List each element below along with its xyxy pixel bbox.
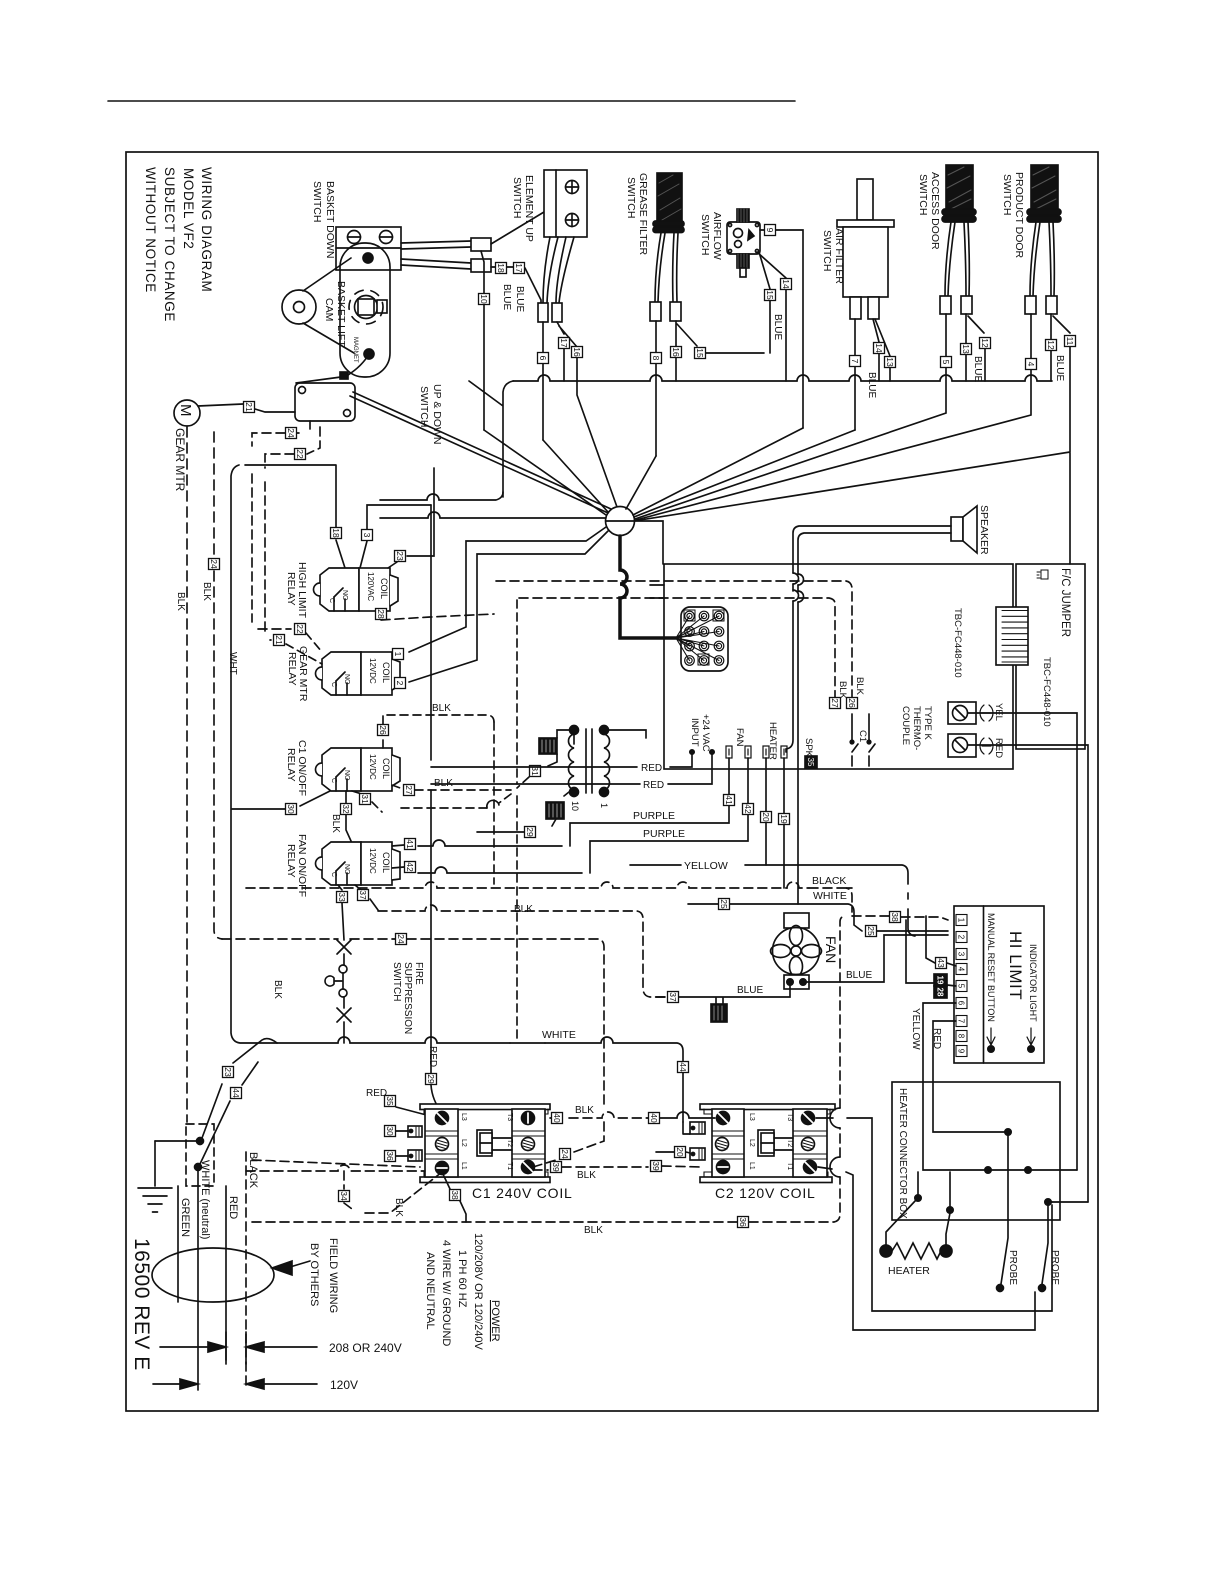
c1 on/off relay — [285, 740, 400, 796]
wires 14 13 — [873, 319, 890, 381]
svg-text:BLK: BLK — [575, 1105, 594, 1116]
fan assembly — [771, 913, 840, 989]
svg-text:L1: L1 — [748, 1162, 755, 1170]
probe wire 2 — [1042, 1202, 1048, 1284]
svg-text:ACCESS DOOR: ACCESS DOOR — [929, 172, 941, 250]
wire to element up switch — [491, 212, 544, 244]
tag 16 — [572, 347, 583, 358]
svg-text:13: 13 — [961, 344, 971, 354]
svg-text:20: 20 — [761, 812, 771, 822]
svg-text:C: C — [330, 872, 337, 877]
product door switch — [1001, 165, 1061, 259]
wire 14 — [757, 252, 786, 381]
svg-text:6: 6 — [957, 1001, 966, 1006]
wire 41 — [392, 845, 404, 846]
tag 26 — [378, 725, 389, 736]
svg-text:BLK: BLK — [393, 1198, 404, 1217]
tag 27 — [404, 785, 415, 796]
tag 42 — [743, 804, 754, 815]
svg-text:HEATER CONNECTOR BOX: HEATER CONNECTOR BOX — [897, 1088, 908, 1219]
svg-text:C1 240V COIL: C1 240V COIL — [472, 1185, 573, 1201]
svg-text:RELAY: RELAY — [285, 572, 297, 606]
tag 31 — [360, 794, 371, 805]
svg-text:11: 11 — [1065, 337, 1075, 346]
element up switch — [511, 170, 587, 242]
svg-text:SWITCH: SWITCH — [917, 174, 929, 215]
dashed 34 net — [246, 1165, 442, 1213]
double wire hub to magnet switch — [350, 392, 611, 513]
svg-text:L3: L3 — [748, 1113, 755, 1121]
svg-text:7: 7 — [850, 359, 860, 364]
tag 24 — [560, 1149, 571, 1160]
tag 31 — [530, 766, 541, 777]
tag 24 — [396, 934, 407, 945]
tag 14 — [874, 343, 885, 354]
radial wires to hub — [484, 428, 855, 517]
svg-text:16500 REV E: 16500 REV E — [130, 1238, 153, 1371]
black tags 19 28 — [934, 974, 947, 986]
svg-text:T1: T1 — [786, 1162, 793, 1170]
green wire — [177, 1186, 179, 1302]
svg-text:BLUE: BLUE — [501, 284, 512, 310]
svg-text:7: 7 — [957, 1019, 966, 1024]
svg-text:10: 10 — [570, 801, 580, 811]
bus left bend — [469, 381, 513, 497]
dashed wire 24 net — [222, 939, 604, 1108]
svg-text:20: 20 — [675, 1147, 685, 1157]
SEC-CORNER — [138, 1039, 501, 1392]
svg-text:BLUE: BLUE — [1054, 355, 1065, 381]
butt connector — [538, 303, 548, 322]
airflow switch — [699, 209, 760, 277]
basket down switch — [311, 181, 401, 270]
svg-text:FAN: FAN — [823, 936, 839, 963]
svg-text:INDICATOR LIGHT: INDICATOR LIGHT — [1028, 944, 1038, 1022]
wire 44 into connector — [683, 1122, 690, 1134]
tag 44 — [231, 1088, 242, 1099]
node dot — [197, 1138, 204, 1145]
wire 42 — [392, 867, 404, 868]
wire j-links — [988, 1170, 1088, 1202]
svg-text:RELAY: RELAY — [285, 748, 297, 782]
svg-text:TBC-FC448-010: TBC-FC448-010 — [952, 608, 963, 678]
svg-text:26: 26 — [847, 698, 857, 708]
dashed wire 26 — [383, 715, 494, 748]
butt connector — [670, 302, 681, 321]
svg-text:2: 2 — [957, 935, 966, 940]
black dashed wire — [245, 1152, 247, 1386]
svg-text:12VDC: 12VDC — [368, 658, 377, 684]
tag 22 — [295, 449, 306, 460]
svg-text:18: 18 — [331, 528, 341, 538]
svg-text:29: 29 — [426, 1074, 436, 1084]
svg-text:17: 17 — [559, 338, 569, 348]
title: WIRING DIAGRAM MODEL VF2 SUBJECT TO CHANGE WITHOUT NOTICE — [143, 167, 214, 322]
grease filter switch — [625, 173, 684, 255]
border frame — [126, 152, 1098, 1411]
hop arcs on dashed vertical — [830, 1108, 840, 1177]
yellow wire hl6 — [923, 1003, 988, 1170]
fire suppression switch — [325, 940, 424, 1043]
wire 39 dashed — [533, 1167, 648, 1170]
svg-text:24: 24 — [286, 428, 296, 438]
tag 21 — [274, 635, 285, 646]
tag 18 — [496, 263, 507, 274]
svg-text:BLK: BLK — [175, 592, 186, 611]
basket lift cam — [323, 243, 390, 377]
high limit relay — [285, 562, 398, 619]
gear mtr relay — [286, 646, 400, 702]
svg-text:RED: RED — [427, 1046, 438, 1067]
svg-text:COIL: COIL — [379, 578, 389, 599]
tag 23 — [395, 551, 406, 562]
svg-text:14: 14 — [781, 279, 791, 289]
svg-text:BLUE: BLUE — [846, 970, 872, 981]
dashed wire tag 22 — [265, 427, 320, 468]
dashed wire 28 — [378, 611, 494, 620]
+24 vac input — [689, 714, 714, 754]
svg-text:BLUE: BLUE — [866, 372, 877, 398]
wire 20 — [656, 1152, 690, 1153]
svg-text:COUPLE: COUPLE — [900, 706, 911, 745]
hi limit box — [954, 906, 1044, 1063]
grease filter wires — [655, 233, 678, 302]
svg-text:120V: 120V — [330, 1378, 358, 1392]
svg-text:6: 6 — [538, 356, 548, 361]
svg-text:15: 15 — [765, 290, 775, 300]
svg-text:YELLOW: YELLOW — [910, 1008, 921, 1050]
butt connector — [650, 302, 661, 321]
svg-text:44: 44 — [678, 1062, 688, 1072]
dashed pair to 26 27 — [496, 581, 852, 697]
svg-text:AND NEUTRAL: AND NEUTRAL — [424, 1252, 436, 1330]
svg-text:C: C — [330, 682, 337, 687]
SEC-RIGHT — [880, 713, 1088, 1292]
dashed wire vertical — [493, 722, 495, 884]
svg-text:NO: NO — [343, 864, 350, 875]
svg-text:MANUAL RESET BUTTON: MANUAL RESET BUTTON — [986, 913, 996, 1022]
fuse connector — [539, 738, 557, 754]
access door switch — [917, 165, 976, 250]
svg-text:40: 40 — [552, 1113, 562, 1123]
svg-text:36: 36 — [385, 1151, 395, 1161]
tag 23 — [223, 1067, 234, 1078]
wire M to 21 — [198, 404, 243, 406]
black connector — [711, 1004, 727, 1022]
svg-text:CAM: CAM — [323, 298, 335, 321]
wire 33 — [338, 885, 344, 940]
svg-text:BASKET LIFT: BASKET LIFT — [335, 281, 347, 347]
wire 23 — [388, 468, 434, 568]
wire 39 stub — [662, 1166, 700, 1167]
svg-text:2: 2 — [395, 681, 405, 686]
tag 15 — [765, 290, 776, 301]
svg-text:27: 27 — [404, 785, 414, 795]
tag 26 — [847, 698, 858, 709]
svg-text:C1: C1 — [857, 730, 868, 742]
hub node — [606, 507, 635, 536]
wire 24 dashed diag — [533, 1121, 604, 1167]
dashed vertical 22 — [252, 474, 291, 629]
svg-text:4 WIRE W/ GROUND: 4 WIRE W/ GROUND — [440, 1240, 452, 1346]
tag 17 — [514, 263, 525, 274]
svg-text:23: 23 — [395, 551, 405, 561]
tag 43 — [936, 958, 947, 969]
svg-text:C2 120V COIL: C2 120V COIL — [715, 1185, 816, 1201]
fuse connector — [546, 802, 564, 819]
tag 38 — [890, 912, 901, 923]
dashed wire 37 net — [378, 905, 666, 997]
wires 12 11 — [634, 314, 1070, 564]
svg-text:33: 33 — [337, 892, 347, 902]
tag 39 — [551, 1162, 562, 1173]
svg-text:INPUT: INPUT — [689, 718, 700, 747]
wire 4 drop — [636, 314, 1031, 520]
tag 19 — [779, 814, 790, 825]
white wire upper — [688, 904, 948, 931]
svg-text:5: 5 — [957, 984, 966, 989]
contactor C1 — [420, 1104, 573, 1201]
black dashed bus — [246, 882, 948, 920]
product door wires — [1030, 222, 1054, 296]
heater connector box — [892, 1082, 1060, 1220]
tag 3 — [362, 530, 373, 541]
dashed tags 22 21 gear relay — [286, 633, 322, 664]
svg-text:24: 24 — [560, 1149, 570, 1159]
svg-text:42: 42 — [405, 862, 415, 872]
svg-text:GEAR MTR: GEAR MTR — [173, 428, 187, 492]
svg-text:BLK: BLK — [837, 681, 848, 700]
wires transformer — [548, 730, 646, 826]
svg-text:15: 15 — [695, 348, 705, 358]
svg-text:FAN: FAN — [734, 728, 745, 747]
svg-text:19: 19 — [936, 976, 945, 985]
wire net18 horizontal — [245, 465, 345, 568]
tag 42 — [405, 862, 416, 873]
svg-text:42: 42 — [743, 804, 753, 814]
tag 33 — [337, 892, 348, 903]
svg-text:BLUE: BLUE — [514, 286, 525, 312]
pin stubs — [726, 746, 787, 758]
svg-text:39: 39 — [651, 1161, 661, 1171]
svg-text:24: 24 — [209, 559, 219, 569]
svg-text:13: 13 — [885, 357, 895, 367]
butt connector — [1025, 296, 1036, 314]
thick wire from hub to connector — [620, 536, 676, 638]
svg-text:L3: L3 — [460, 1113, 467, 1121]
svg-text:RED: RED — [641, 763, 662, 774]
svg-text:PURPLE: PURPLE — [643, 828, 685, 840]
svg-text:22: 22 — [295, 624, 305, 634]
control board box — [664, 564, 1013, 769]
wire 30 — [232, 791, 330, 809]
svg-text:28: 28 — [376, 609, 386, 619]
field wiring ellipse — [152, 1248, 274, 1302]
svg-text:C: C — [330, 778, 337, 783]
wire 40 into L3 — [648, 1112, 715, 1118]
svg-text:BLK: BLK — [432, 703, 451, 714]
svg-text:BLUE: BLUE — [737, 985, 763, 996]
svg-text:BLK: BLK — [577, 1170, 596, 1181]
svg-text:T2: T2 — [786, 1139, 793, 1147]
svg-text:PRODUCT DOOR: PRODUCT DOOR — [1013, 172, 1025, 259]
wire stubs into box — [650, 585, 664, 598]
svg-text:28: 28 — [936, 988, 945, 997]
svg-text:BLK: BLK — [201, 582, 212, 601]
wire 7 drop — [854, 319, 856, 430]
svg-text:9: 9 — [765, 228, 775, 233]
tag 21 — [244, 402, 255, 413]
tag 37 — [358, 890, 369, 901]
power text block — [424, 1233, 501, 1350]
transformer — [568, 726, 609, 812]
svg-text:SUPPRESSION: SUPPRESSION — [402, 962, 413, 1034]
fan blue wire 37 left dashed — [656, 996, 666, 998]
ground symbol — [138, 1141, 172, 1212]
svg-text:12: 12 — [980, 338, 990, 348]
heater resistor — [880, 1243, 952, 1277]
svg-text:COIL: COIL — [381, 852, 391, 873]
svg-text:BLACK: BLACK — [247, 1152, 259, 1189]
svg-text:BY OTHERS: BY OTHERS — [308, 1243, 320, 1306]
svg-text:BASKET DOWN: BASKET DOWN — [324, 181, 336, 258]
tag 5 — [941, 357, 952, 368]
arrow to ellipse — [290, 1261, 310, 1267]
c2 left connectors — [690, 1122, 705, 1160]
svg-text:44: 44 — [231, 1088, 241, 1098]
wire dot to ground — [155, 1140, 200, 1142]
svg-text:T3: T3 — [506, 1113, 513, 1121]
tag 22 — [295, 624, 306, 635]
svg-text:1 PH 60 HZ: 1 PH 60 HZ — [456, 1250, 468, 1308]
svg-text:14: 14 — [874, 343, 884, 353]
svg-text:37: 37 — [358, 890, 368, 900]
wire 37 — [355, 885, 378, 910]
svg-text:COIL: COIL — [381, 662, 391, 683]
hi limit terminals 1-9 — [956, 915, 967, 1057]
svg-text:WIRING DIAGRAM: WIRING DIAGRAM — [199, 167, 214, 292]
svg-text:SWITCH: SWITCH — [1001, 174, 1013, 215]
tag 9 — [765, 225, 776, 236]
tag 13 — [961, 344, 972, 355]
SEC-BOTTOM — [246, 505, 1052, 1330]
svg-text:BLK: BLK — [330, 814, 341, 833]
svg-text:23: 23 — [223, 1067, 233, 1077]
svg-text:POWER: POWER — [489, 1300, 501, 1342]
tag 7 — [850, 356, 861, 367]
svg-text:SWITCH: SWITCH — [699, 214, 711, 255]
wire 9 — [760, 230, 803, 428]
svg-text:12VDC: 12VDC — [368, 754, 377, 780]
wire T3 down around — [816, 1118, 1052, 1311]
svg-text:35: 35 — [806, 758, 815, 767]
svg-text:34: 34 — [339, 1191, 349, 1201]
butt connector — [1046, 296, 1057, 314]
tag 44 — [678, 1062, 689, 1073]
wire with tags 18 17 — [491, 267, 541, 305]
svg-text:SWITCH: SWITCH — [625, 177, 637, 218]
svg-text:32: 32 — [341, 804, 351, 814]
svg-text:120VAC: 120VAC — [366, 572, 375, 601]
svg-text:37: 37 — [668, 992, 678, 1002]
tag 27 — [830, 698, 841, 709]
svg-text:NO: NO — [341, 590, 348, 601]
svg-text:M: M — [177, 404, 194, 417]
svg-text:NO: NO — [343, 770, 350, 781]
wire top link — [606, 521, 663, 564]
svg-text:SWITCH: SWITCH — [511, 177, 523, 218]
wire T1 down around — [818, 1167, 1035, 1330]
svg-text:19: 19 — [779, 814, 789, 824]
svg-text:16: 16 — [572, 347, 582, 357]
dim arrows 208 — [160, 1332, 402, 1364]
C1 switch contacts — [850, 714, 875, 766]
up & down switch — [295, 354, 443, 444]
svg-text:WHITE (neutral): WHITE (neutral) — [199, 1160, 211, 1239]
svg-text:RED: RED — [643, 780, 664, 791]
svg-text:9: 9 — [957, 1049, 966, 1054]
tag 25 — [719, 899, 730, 910]
svg-text:30: 30 — [286, 804, 296, 814]
red wires — [431, 754, 712, 784]
svg-text:PURPLE: PURPLE — [633, 810, 675, 822]
svg-text:WHITE: WHITE — [542, 1029, 576, 1041]
wire net3 — [360, 505, 431, 568]
wire 43 — [926, 916, 956, 966]
svg-text:208 OR 240V: 208 OR 240V — [329, 1341, 402, 1355]
tag 16 — [671, 347, 682, 358]
red wire — [225, 1186, 227, 1360]
tag 37 — [668, 992, 679, 1003]
svg-text:YELLOW: YELLOW — [684, 860, 728, 872]
wire 40 dashed — [550, 1112, 648, 1118]
tag 12 — [1046, 340, 1057, 351]
SEC-LEFT — [173, 400, 666, 1122]
svg-text:L1: L1 — [460, 1162, 467, 1170]
svg-text:RED: RED — [931, 1028, 942, 1049]
element up wires — [543, 237, 574, 303]
svg-text:BLUE: BLUE — [972, 356, 983, 382]
svg-text:36: 36 — [738, 1217, 748, 1227]
svg-text:25: 25 — [719, 899, 729, 909]
svg-text:12VDC: 12VDC — [368, 848, 377, 874]
wire fan blue right — [806, 935, 948, 982]
tag 38 — [450, 1190, 461, 1201]
speaker — [951, 505, 990, 555]
basket lift pulley — [282, 258, 354, 353]
svg-text:43: 43 — [936, 958, 946, 968]
wire 23 diagonal — [202, 1039, 277, 1138]
wire 37 blue left — [679, 985, 790, 1004]
svg-text:PROBE: PROBE — [1007, 1250, 1018, 1285]
svg-text:12: 12 — [1046, 340, 1056, 350]
main bus wire with hops — [513, 375, 1052, 381]
svg-text:4: 4 — [957, 967, 966, 972]
svg-text:F/C JUMPER: F/C JUMPER — [1059, 568, 1071, 637]
svg-text:25: 25 — [866, 926, 876, 936]
dashed wire tag 24 — [252, 421, 310, 446]
wire pair into hub — [380, 492, 606, 518]
SEC-TITLE — [130, 167, 214, 1371]
svg-text:120/208V OR 120/240V: 120/208V OR 120/240V — [472, 1233, 484, 1350]
gear motor M — [173, 400, 200, 492]
svg-text:BLK: BLK — [272, 980, 283, 999]
dashed wire 27 — [392, 785, 511, 790]
wire 41 purple — [418, 758, 729, 846]
svg-text:FIELD WIRING: FIELD WIRING — [327, 1238, 339, 1313]
tag 17 — [559, 338, 570, 349]
wires hub to relays — [409, 527, 608, 682]
